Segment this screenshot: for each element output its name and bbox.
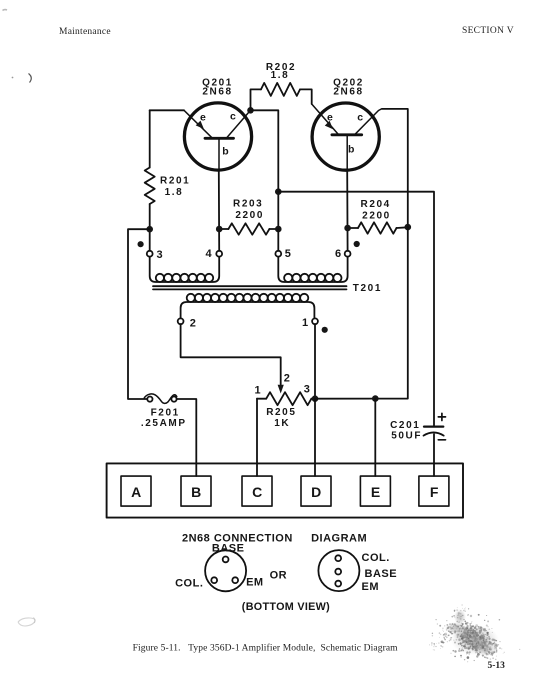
wire terminal 2 to R205 wiper [181,324,281,384]
svg-text:Maintenance: Maintenance [59,27,111,37]
stray parenthesis mark [29,74,32,83]
svg-text:BASE: BASE [212,543,245,555]
terminal 5 [275,251,281,257]
wire R201 top vertical [149,110,151,167]
terminal box A [121,476,151,506]
terminal box E [360,476,390,506]
wire long horizontal feed to C201 drop [278,192,434,426]
svg-text:COL.: COL. [175,578,203,590]
node R205 right [312,395,319,402]
wire R202 right end to Q202 emitter [300,89,312,104]
wire rail node D to corner at R204 drop [315,398,375,400]
svg-text:COL.: COL. [362,552,390,564]
svg-text:R203: R203 [233,199,263,210]
node R201 bottom junction [146,226,153,233]
svg-text:2200: 2200 [235,210,264,221]
svg-text:e: e [200,112,206,124]
transformer T201 primary right winding [278,257,347,282]
capacitor C201 [424,427,444,476]
node R203 left [216,226,223,233]
svg-text:B: B [191,484,201,500]
transistor Q202 [312,103,382,170]
svg-text:4: 4 [206,248,213,260]
terminal 1 [312,318,318,324]
phasing dot near terminal 6 [354,241,360,247]
svg-text:2N68: 2N68 [333,87,363,98]
svg-text:50UF: 50UF [391,431,422,442]
faint scribble bottom left [18,618,35,626]
svg-text:c: c [357,112,363,124]
svg-text:1K: 1K [274,418,290,429]
svg-text:F: F [430,484,439,500]
svg-text:R205: R205 [266,407,296,418]
svg-text:A: A [131,484,141,500]
svg-text:(BOTTOM VIEW): (BOTTOM VIEW) [242,601,330,613]
wire node R203 right to term5 [277,229,279,251]
phasing dot near terminal 1 [322,327,328,333]
wire Q201 emitter horizontal [150,109,184,111]
ink smudge blob [429,604,520,662]
wire node3 left branch down to fuse rail [128,229,150,399]
wire Q202 base down to node6 [346,170,348,251]
wire collector dot right then down to R203 right [251,110,279,229]
svg-text:EM: EM [246,577,264,589]
svg-text:F201: F201 [151,408,180,419]
wire Q202 collector to right drop [382,109,408,227]
resistor R203 [228,223,269,234]
wire terminal 1 down to node D [314,324,316,399]
svg-text:e: e [327,112,333,124]
svg-text:2N68: 2N68 [202,87,232,98]
svg-text:6: 6 [335,248,341,260]
svg-text:C201: C201 [390,420,420,431]
node rail E [372,395,379,402]
svg-text:5-13: 5-13 [488,661,506,671]
svg-text:C: C [252,484,262,500]
node R204 right [405,224,412,231]
svg-text:R204: R204 [361,199,391,210]
transformer secondary winding [181,294,315,319]
transistor Q201 [184,103,252,170]
svg-text:1: 1 [255,384,261,396]
svg-text:T201: T201 [353,283,382,294]
svg-text:SECTION V: SECTION V [462,26,514,36]
svg-text:1: 1 [302,317,308,329]
node Q201 collector junction [247,107,254,114]
R205 wiper arrow [278,385,284,394]
terminal 3 [147,251,153,257]
svg-text:2: 2 [284,372,290,384]
wire collector dot up to R202 left [251,89,262,110]
svg-text:R201: R201 [160,176,190,187]
node R203-right / feed junction [275,188,282,195]
svg-text:E: E [371,484,380,500]
wire node to D box [314,399,316,476]
svg-text:3: 3 [157,249,163,261]
stray mark top left [3,9,8,12]
node R203 right [275,226,282,233]
phasing dot near terminal 3 [138,241,144,247]
wire R201 bottom to node [149,204,151,251]
svg-text:2: 2 [190,317,196,329]
wire Q201 base down to node4 [218,170,220,251]
svg-text:3: 3 [304,384,310,396]
wire R204 right down to bottom rail corner [375,227,408,399]
terminal box B [181,476,211,506]
wire R205 left to C box [256,399,258,476]
terminal box F [419,476,449,506]
terminal box C [242,476,272,506]
transformer T201 primary left winding [150,257,220,282]
svg-text:EM: EM [362,581,380,593]
wire node to E box [374,399,376,476]
transformer core [153,286,347,289]
terminal strip outline [107,463,463,517]
svg-text:1.8: 1.8 [271,70,290,81]
svg-text:5: 5 [285,248,291,260]
svg-text:c: c [230,111,236,123]
resistor R201 [145,168,155,205]
svg-text:BASE: BASE [365,568,398,580]
svg-text:2200: 2200 [362,210,391,221]
terminal 4 [216,251,222,257]
svg-text:b: b [348,144,354,156]
svg-text:OR: OR [270,570,288,582]
resistor R205 [257,398,266,400]
svg-text:Figure 5-11. Type 356D-1 Amp: Figure 5-11. Type 356D-1 Amplifier Modul… [133,643,399,654]
resistor R202 [261,83,300,96]
terminal 6 [345,251,351,257]
fuse F201 [144,394,177,403]
svg-text:D: D [311,484,321,500]
2N68 bottom view right transistor [318,550,359,591]
terminal box D [301,476,331,506]
plus sign C201 [438,413,445,440]
svg-text:DIAGRAM: DIAGRAM [311,533,367,545]
svg-text:.25AMP: .25AMP [141,418,187,429]
terminal 2 [178,318,184,324]
2N68 bottom view left transistor [205,550,246,591]
svg-text:b: b [222,146,228,158]
resistor R204 [348,227,358,229]
wire fuse to B drop [177,399,197,476]
svg-text:1.8: 1.8 [165,187,184,198]
node R204 left [344,225,351,232]
